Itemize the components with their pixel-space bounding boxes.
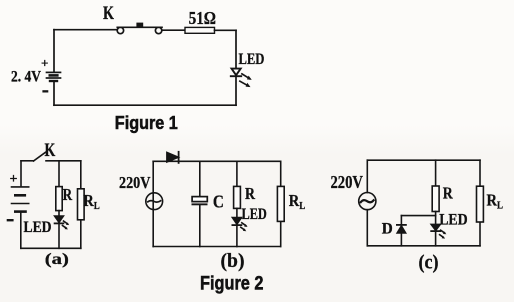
svg-text:L: L <box>497 200 503 212</box>
svg-text:R: R <box>245 184 256 203</box>
svg-text:(c): (c) <box>419 252 439 274</box>
svg-text:R: R <box>443 184 454 203</box>
svg-text:220V: 220V <box>331 172 364 192</box>
svg-text:C: C <box>213 192 224 212</box>
svg-text:K: K <box>45 141 56 161</box>
svg-text:L: L <box>299 200 305 212</box>
svg-text:+: + <box>10 172 18 187</box>
svg-text:LED: LED <box>239 51 265 68</box>
svg-text:LED: LED <box>24 219 52 236</box>
svg-text:K: K <box>103 3 114 24</box>
svg-text:Figure 1: Figure 1 <box>115 113 178 133</box>
svg-text:Figure 2: Figure 2 <box>200 273 264 295</box>
svg-text:LED: LED <box>242 206 267 223</box>
svg-text:R: R <box>63 185 73 204</box>
svg-text:+: + <box>41 56 48 71</box>
svg-text:D: D <box>382 221 393 238</box>
svg-text:(a): (a) <box>45 251 69 268</box>
svg-text:(b): (b) <box>221 250 245 272</box>
svg-text:220V: 220V <box>119 173 151 192</box>
svg-text:LED: LED <box>439 212 468 229</box>
svg-text:51Ω: 51Ω <box>189 8 216 28</box>
svg-text:L: L <box>94 200 100 212</box>
svg-text:2. 4V: 2. 4V <box>11 69 41 86</box>
